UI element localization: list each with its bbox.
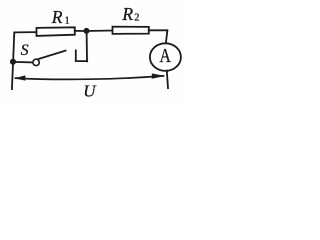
wire R2 to top-right corner: [149, 29, 168, 31]
wire left vertical: [12, 32, 14, 89]
svg-text:2: 2: [134, 13, 139, 24]
switch S blade: [39, 51, 66, 59]
resistor R1: [37, 27, 75, 36]
wire ammeter bottom to lower terminal: [167, 71, 168, 89]
arrow U left arrowhead: [14, 75, 25, 80]
svg-text:R: R: [121, 4, 133, 24]
wire node to switch pivot: [13, 61, 32, 64]
svg-text:A: A: [160, 46, 171, 67]
wire junction to R2: [87, 30, 113, 33]
svg-text:S: S: [21, 42, 29, 59]
node junction dot between R1 and R2: [84, 28, 90, 34]
node junction dot on left wire: [10, 59, 16, 65]
wire top-left segment: [14, 31, 36, 33]
wire right vertical down to ammeter: [166, 30, 168, 43]
svg-text:U: U: [83, 82, 97, 101]
svg-text:1: 1: [65, 16, 70, 27]
arrow U dimension line: [16, 76, 164, 80]
wire R1 to junction: [75, 30, 87, 32]
ammeter A circle: [150, 43, 181, 71]
resistor R2: [113, 27, 149, 34]
arrow U right arrowhead: [152, 73, 165, 78]
wire riser from contact up to R1-R2 junction: [86, 31, 88, 61]
switch S fixed contact: [76, 50, 87, 61]
switch S pivot circle: [33, 59, 39, 65]
svg-text:R: R: [51, 7, 63, 27]
